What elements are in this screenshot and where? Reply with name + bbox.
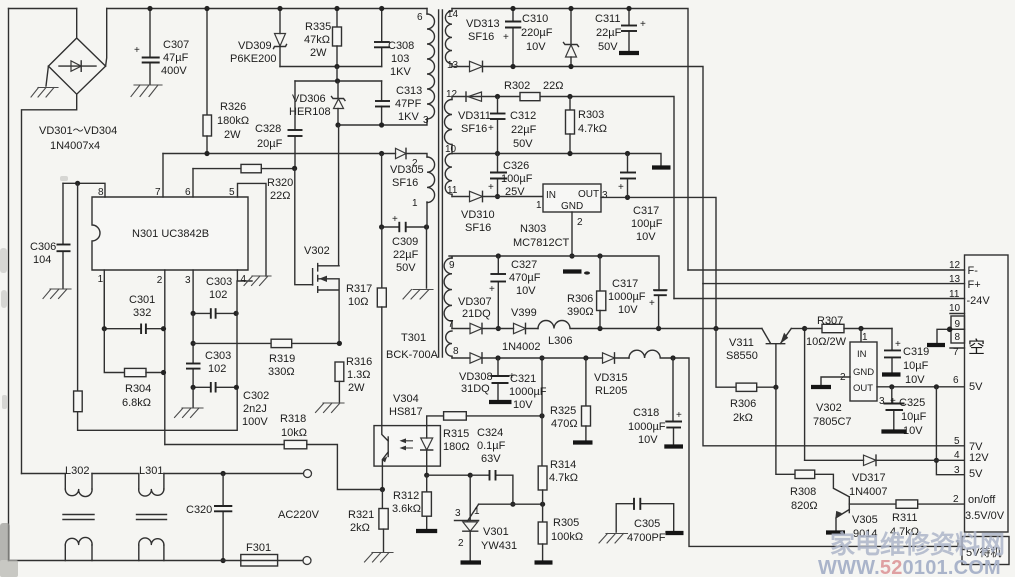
node rail R335	[334, 6, 339, 11]
ground C306	[43, 289, 71, 299]
label N303 MC7812CT	[513, 223, 570, 249]
svg-text:+: +	[676, 410, 682, 421]
svg-text:1KV: 1KV	[398, 111, 419, 123]
svg-text:1: 1	[98, 274, 104, 285]
svg-text:31DQ: 31DQ	[461, 383, 490, 395]
label R316 1.3 2W	[346, 356, 372, 394]
svg-text:R308: R308	[790, 486, 816, 498]
svg-text:S8550: S8550	[726, 350, 758, 362]
svg-text:OUT: OUT	[853, 383, 873, 394]
svg-text:2: 2	[157, 275, 163, 286]
wire fb node	[427, 473, 473, 478]
capacitor C319	[884, 329, 901, 373]
resistor R312	[422, 475, 431, 529]
label R317 10ohm	[346, 283, 372, 308]
diode VD306 HER108	[332, 81, 346, 125]
label R325 470	[550, 405, 578, 430]
svg-text:MC7812CT: MC7812CT	[513, 237, 570, 249]
label R306 390	[567, 293, 594, 318]
label C312 22uF 50V	[510, 110, 537, 150]
svg-text:1N4007: 1N4007	[849, 486, 888, 498]
pin 6 stub	[953, 375, 983, 393]
pin 1 stub	[98, 270, 105, 329]
diode VD310 SF16	[452, 191, 543, 201]
svg-text:3: 3	[423, 115, 429, 126]
label C309 22uF 50V	[392, 236, 419, 274]
capacitor C305	[616, 498, 674, 532]
svg-text:2kΩ: 2kΩ	[350, 522, 370, 534]
capacitor C326	[488, 154, 507, 200]
svg-text:11: 11	[949, 289, 960, 300]
node opto emitter	[380, 466, 385, 492]
pin 4 stub	[237, 270, 252, 285]
ground R321	[365, 553, 394, 563]
svg-text:10V: 10V	[636, 231, 656, 243]
diode VD311 SF16	[466, 92, 482, 101]
resistor R318	[165, 440, 382, 489]
svg-text:C321: C321	[510, 373, 536, 385]
svg-text:220µF: 220µF	[521, 27, 553, 39]
svg-text:3.5V/0V: 3.5V/0V	[965, 510, 1005, 522]
svg-text:10V: 10V	[638, 434, 658, 446]
svg-text:C325: C325	[899, 397, 925, 409]
svg-text:22µF: 22µF	[596, 27, 622, 39]
svg-text:F-: F-	[968, 265, 979, 277]
svg-text:100V: 100V	[242, 416, 268, 428]
resistor R314	[538, 466, 547, 504]
resistor R313 ref divider	[74, 183, 238, 430]
svg-text:12: 12	[446, 89, 458, 100]
diode VD313 SF16	[452, 61, 483, 71]
svg-text:2W: 2W	[224, 129, 241, 141]
ground R325	[573, 440, 593, 444]
diode zener F clamp	[564, 6, 579, 69]
label VD313 SF16	[466, 18, 500, 43]
svg-text:C306: C306	[30, 241, 56, 253]
svg-text:2n2J: 2n2J	[243, 403, 267, 415]
capacitor C303 upper	[191, 308, 239, 319]
svg-text:R315: R315	[443, 428, 469, 440]
capacitor C307	[134, 9, 160, 85]
svg-text:12V: 12V	[969, 452, 989, 464]
winding T301 sec 9-7	[444, 256, 455, 330]
svg-text:2: 2	[412, 158, 418, 169]
svg-text:V305: V305	[852, 514, 878, 526]
ground C321	[489, 400, 512, 404]
capacitor C325	[884, 387, 905, 429]
svg-text:VD308: VD308	[459, 371, 493, 383]
svg-text:V399: V399	[511, 307, 537, 319]
svg-text:390Ω: 390Ω	[567, 306, 594, 318]
svg-text:10V: 10V	[526, 41, 546, 53]
svg-text:YW431: YW431	[481, 540, 517, 552]
resistor R320	[193, 164, 297, 172]
svg-text:R321: R321	[348, 509, 374, 521]
svg-text:C308: C308	[388, 40, 414, 52]
svg-text:C317: C317	[612, 278, 638, 290]
svg-text:1N4007x4: 1N4007x4	[50, 140, 100, 152]
label V305 9014	[852, 514, 878, 540]
wire 5V riser	[934, 387, 965, 475]
pin 9 box	[951, 316, 965, 330]
svg-text:C310: C310	[522, 13, 548, 25]
svg-text:SF16: SF16	[461, 123, 487, 135]
svg-text:C303: C303	[206, 276, 232, 288]
label R302 22	[504, 80, 563, 92]
resistor R311	[896, 500, 965, 508]
ground N303	[563, 271, 590, 274]
svg-text:102: 102	[209, 289, 227, 301]
svg-text:3: 3	[185, 275, 191, 286]
wire snubber bottom	[280, 64, 382, 69]
svg-text:VD309: VD309	[238, 40, 272, 52]
capacitor C312	[488, 97, 506, 154]
svg-text:2kΩ: 2kΩ	[733, 412, 753, 424]
svg-text:R306: R306	[730, 398, 756, 410]
svg-text:22Ω: 22Ω	[543, 80, 563, 92]
svg-text:10µF: 10µF	[903, 360, 929, 372]
pin 3 stub	[185, 270, 193, 313]
wire 12V rail row1	[597, 326, 762, 331]
svg-text:on/off: on/off	[968, 494, 996, 506]
label C306 104	[30, 241, 56, 266]
wire AC bottom lead	[9, 560, 304, 562]
resistor R305	[538, 504, 547, 561]
svg-text:GND: GND	[853, 367, 874, 378]
label VD305 SF16	[390, 164, 424, 189]
label C320	[186, 504, 212, 516]
svg-text:T301: T301	[401, 332, 426, 344]
label R320 22ohm	[267, 177, 293, 202]
svg-text:8: 8	[955, 332, 961, 343]
svg-text:103: 103	[391, 53, 409, 65]
winding T301 sec 12-10	[445, 89, 458, 155]
svg-text:+: +	[488, 182, 494, 193]
ground bridge minus	[31, 66, 58, 97]
diode VD309 P6KE200	[274, 9, 287, 67]
svg-text:2: 2	[577, 217, 583, 228]
label C305 4700PF	[627, 518, 666, 544]
svg-text:3: 3	[602, 190, 608, 201]
label C308 103 1KV	[388, 40, 414, 78]
wire +310V top rail left	[9, 8, 428, 10]
svg-text:VD311: VD311	[458, 110, 491, 122]
ground C309	[403, 290, 433, 300]
svg-text:10V: 10V	[516, 285, 536, 297]
svg-text:102: 102	[208, 363, 226, 375]
ground pins 9 8	[927, 327, 953, 346]
label V304 HS817	[389, 393, 423, 418]
label L306	[548, 335, 572, 347]
label R326 180k 2W	[217, 101, 249, 141]
svg-text:F301: F301	[246, 542, 271, 554]
label C307 47uF 400V	[161, 39, 189, 77]
svg-text:OUT: OUT	[578, 189, 599, 200]
svg-text:+: +	[134, 45, 140, 56]
svg-text:2W: 2W	[310, 47, 327, 59]
svg-text:+: +	[890, 396, 896, 407]
inductor row2	[629, 350, 673, 358]
wire pin4 net vertical	[236, 281, 238, 387]
svg-text:C328: C328	[255, 123, 281, 135]
pin 7 stub	[155, 154, 163, 199]
ground R312	[416, 529, 437, 533]
wire V311 base drive	[776, 387, 795, 474]
svg-text:21DQ: 21DQ	[462, 308, 491, 320]
svg-text:1KV: 1KV	[390, 66, 411, 78]
svg-text:7: 7	[155, 187, 161, 198]
label VD317 1N4007	[849, 472, 888, 498]
pin 10 stub	[949, 303, 965, 314]
inductor L301	[92, 474, 167, 561]
winding T301 sec 10-11	[445, 154, 458, 197]
ground V305	[826, 530, 845, 534]
svg-text:47kΩ: 47kΩ	[304, 34, 330, 46]
capacitor C324	[470, 470, 515, 507]
label C303 102 lower	[205, 350, 231, 375]
regulator V302 7805C7	[840, 329, 885, 408]
capacitor C309	[379, 154, 429, 233]
wire feedback sense	[539, 355, 544, 466]
svg-text:10V: 10V	[905, 374, 925, 386]
node opto LED cathode	[424, 466, 429, 478]
label C302 2n2J 100V	[242, 390, 269, 428]
svg-text:R319: R319	[269, 353, 295, 365]
svg-text:22Ω: 22Ω	[270, 190, 290, 202]
svg-text:50V: 50V	[396, 262, 416, 274]
wire V301 cathode row	[479, 502, 546, 507]
label V302	[304, 245, 330, 257]
svg-text:1.3Ω: 1.3Ω	[347, 369, 371, 381]
label C311 22uF 50V	[595, 13, 622, 53]
svg-text:V301: V301	[483, 526, 509, 538]
regulator V301 YW431	[455, 475, 481, 561]
pin 7 stub	[950, 338, 985, 358]
svg-text:2W: 2W	[348, 382, 365, 394]
bridge rectifier VD301~VD304	[48, 9, 106, 95]
svg-text:10Ω: 10Ω	[348, 296, 368, 308]
label R314 4.7k	[549, 459, 578, 484]
diode VD317 1N4007	[805, 455, 965, 465]
svg-text:C312: C312	[510, 110, 536, 122]
wire standby out	[670, 355, 962, 546]
svg-text:12: 12	[949, 260, 961, 271]
wire 5V out	[877, 384, 965, 389]
wire F+ rail	[483, 67, 704, 284]
scan noise left	[0, 176, 68, 577]
label C321 1000uF 10V	[509, 373, 547, 411]
svg-text:2: 2	[458, 538, 464, 549]
svg-text:63V: 63V	[481, 453, 501, 465]
svg-text:+: +	[618, 182, 624, 193]
svg-text:RL205: RL205	[595, 385, 627, 397]
svg-text:14: 14	[447, 9, 459, 20]
capacitor C302	[191, 382, 239, 393]
wire -24V row	[452, 94, 674, 299]
svg-text:VD305: VD305	[390, 164, 424, 176]
svg-text:VD317: VD317	[852, 472, 886, 484]
svg-text:5V: 5V	[969, 468, 983, 480]
svg-text:R304: R304	[125, 383, 151, 395]
svg-text:GND: GND	[561, 201, 583, 212]
wire 7V drop	[703, 284, 965, 446]
label C303 102 upper	[206, 276, 232, 301]
svg-text:C302: C302	[243, 390, 269, 402]
svg-text:50V: 50V	[513, 138, 533, 150]
fuse F301	[241, 555, 278, 567]
capacitor C321	[491, 358, 516, 400]
capacitor C317 100uF	[618, 154, 636, 198]
label R312 3.6k	[392, 490, 421, 515]
label V302 7805C7	[813, 402, 852, 428]
label C317 1000uF 10V	[608, 278, 646, 316]
svg-text:+: +	[649, 298, 655, 309]
svg-text:R311: R311	[892, 512, 917, 524]
svg-text:C318: C318	[633, 407, 659, 419]
svg-text:180kΩ: 180kΩ	[217, 115, 249, 127]
wire VCC rail	[163, 151, 396, 156]
svg-text:1: 1	[412, 198, 418, 209]
label L301	[139, 465, 163, 477]
resistor R317	[377, 227, 386, 426]
capacitor C313	[375, 81, 390, 125]
label V311 S8550	[726, 337, 758, 362]
resistor R321	[379, 490, 388, 552]
svg-text:V302: V302	[304, 245, 330, 257]
wire xfmr pin1 to C309	[426, 202, 429, 288]
transistor V311 S8550	[762, 329, 805, 388]
label L302	[65, 465, 89, 477]
ground C303 C302	[175, 408, 204, 418]
svg-text:HS817: HS817	[389, 406, 423, 418]
svg-text:10µF: 10µF	[901, 411, 927, 423]
svg-text:13: 13	[949, 274, 961, 285]
svg-text:R326: R326	[220, 101, 246, 113]
transformer T301 core	[439, 10, 443, 357]
svg-text:9: 9	[449, 260, 455, 271]
label VD311 SF16	[458, 110, 491, 135]
svg-text:470Ω: 470Ω	[551, 418, 578, 430]
svg-text:22µF: 22µF	[393, 249, 419, 261]
label R304 6.8k	[122, 383, 151, 409]
svg-text:C301: C301	[129, 294, 155, 306]
wire 12V out	[601, 195, 716, 329]
svg-text:C319: C319	[903, 346, 929, 358]
svg-text:4.7kΩ: 4.7kΩ	[578, 123, 607, 135]
terminal AC top	[304, 470, 312, 478]
svg-text:C307: C307	[163, 39, 189, 51]
svg-text:R305: R305	[553, 517, 579, 529]
svg-text:V302: V302	[816, 402, 842, 414]
wire C302 ground leg	[192, 387, 194, 407]
terminal AC bottom	[303, 557, 311, 565]
svg-text:C311: C311	[595, 13, 620, 25]
label C318 1000uF 10V	[628, 407, 666, 446]
wire sec ground rail	[452, 151, 661, 166]
svg-text:R316: R316	[346, 356, 372, 368]
ground 7805	[811, 385, 831, 389]
pin 3 stub	[954, 465, 983, 480]
svg-text:8: 8	[453, 346, 459, 357]
capacitor C306	[57, 183, 71, 288]
svg-text:-24V: -24V	[967, 295, 991, 307]
svg-text:R314: R314	[550, 459, 576, 471]
svg-text:1: 1	[862, 332, 868, 343]
label C325 10uF 10V	[899, 397, 927, 437]
svg-text:R320: R320	[267, 177, 293, 189]
svg-text:0.1µF: 0.1µF	[477, 440, 506, 452]
diode VD307 21DQ	[452, 323, 498, 333]
svg-text:V311: V311	[729, 337, 754, 349]
svg-text:家电维修资料网: 家电维修资料网	[830, 530, 1005, 559]
wire pin13 F+ row	[703, 274, 981, 291]
svg-text:C303: C303	[205, 350, 231, 362]
svg-text:1000µF: 1000µF	[608, 291, 646, 303]
wire 7805 gnd leg	[821, 377, 850, 385]
ground R305	[535, 560, 553, 564]
svg-text:N303: N303	[520, 223, 546, 235]
pin 2 stub	[157, 270, 165, 445]
label C317 100uF 10V	[631, 205, 663, 243]
label R321 2k	[348, 509, 374, 534]
resistor R316	[335, 362, 344, 402]
svg-text:VD310: VD310	[461, 209, 495, 221]
svg-text:C320: C320	[186, 504, 212, 516]
label V301 YW431	[481, 526, 517, 552]
ground C305 left	[599, 534, 628, 544]
ground pins 4 and 5	[244, 276, 271, 286]
svg-text:VD315: VD315	[594, 372, 628, 384]
capacitor C318	[665, 358, 682, 445]
svg-text:C309: C309	[392, 236, 418, 248]
svg-text:100kΩ: 100kΩ	[551, 531, 583, 543]
svg-text:R306: R306	[567, 293, 593, 305]
capacitor C327	[489, 256, 506, 331]
svg-text:L306: L306	[548, 335, 572, 347]
svg-text:空: 空	[968, 338, 985, 357]
node rail R326	[204, 6, 209, 11]
wire gate line	[295, 168, 313, 284]
svg-text:SF16: SF16	[465, 222, 491, 234]
svg-text:AC220V: AC220V	[278, 509, 320, 521]
resistor R302	[520, 93, 540, 101]
pin 1 stub	[955, 539, 965, 550]
label C313 47PF 1KV	[395, 85, 422, 123]
svg-text:1000µF: 1000µF	[628, 421, 666, 433]
svg-text:10: 10	[949, 303, 961, 314]
winding T301 primary 6-3	[417, 9, 435, 127]
svg-text:F+: F+	[968, 279, 981, 291]
svg-text:N301 UC3842B: N301 UC3842B	[132, 228, 209, 240]
svg-text:7805C7: 7805C7	[813, 416, 852, 428]
svg-text:L302: L302	[65, 465, 89, 477]
resistor R315	[427, 412, 545, 426]
transistor V302 MOSFET	[313, 264, 340, 344]
resistor R306 390	[597, 256, 606, 329]
label V399 1N4002	[502, 307, 541, 353]
svg-text:1: 1	[536, 200, 542, 211]
resistor R303	[566, 97, 575, 154]
pin 2 stub	[953, 494, 1005, 522]
arrows V304 light	[400, 438, 414, 450]
ground C318	[664, 444, 683, 448]
svg-text:R302: R302	[504, 80, 530, 92]
svg-text:50V: 50V	[598, 41, 618, 53]
resistor R319	[193, 339, 342, 347]
svg-text:1N4002: 1N4002	[502, 341, 541, 353]
label F301	[246, 542, 271, 554]
wire pin11 -24V row	[674, 289, 990, 307]
